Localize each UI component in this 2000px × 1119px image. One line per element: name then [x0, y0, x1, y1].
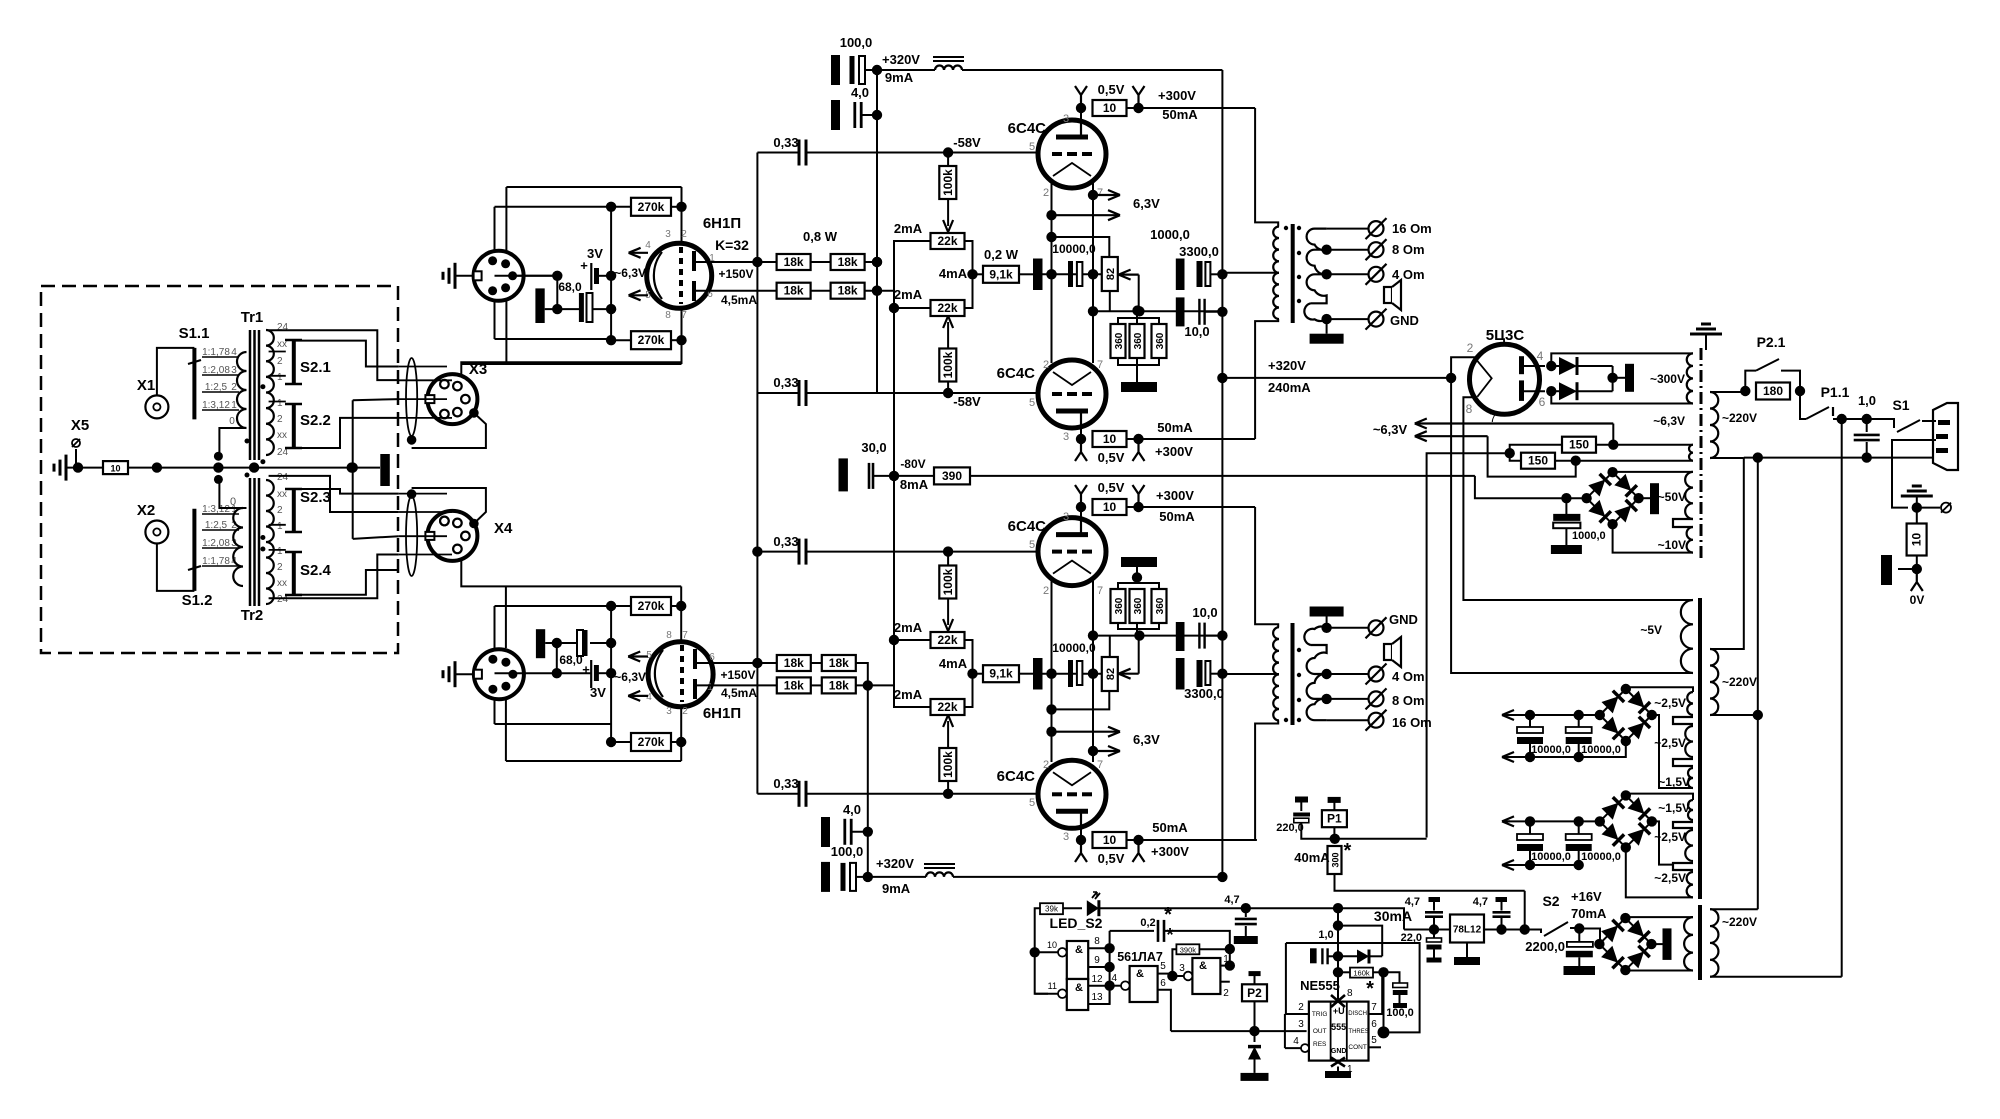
wire 40mA to S2 rail	[1524, 891, 1526, 930]
resistor 82 lower	[1102, 657, 1118, 691]
svg-text:9,1k: 9,1k	[989, 667, 1013, 681]
svg-text:10000,0: 10000,0	[1052, 242, 1096, 256]
winding ~220V B	[1710, 649, 1757, 715]
cable shield bar	[365, 454, 390, 486]
capacitor 22,0	[1401, 930, 1442, 963]
wire LED rail top	[1035, 907, 1246, 909]
svg-text:100k: 100k	[941, 169, 955, 196]
svg-text:8: 8	[665, 310, 671, 321]
svg-text:7: 7	[1371, 1002, 1377, 1013]
svg-text:4 Om: 4 Om	[1392, 267, 1425, 282]
svg-text:0,5V: 0,5V	[1098, 450, 1125, 465]
driver inner box upper	[495, 207, 612, 339]
tube 6N1P lower pin numbers	[646, 630, 715, 717]
output transformer lower secondary	[1304, 626, 1326, 720]
svg-text:4: 4	[645, 240, 651, 251]
wires into X3	[399, 367, 452, 418]
switch S1	[1867, 397, 1936, 432]
label 4,5mA upper	[721, 293, 757, 307]
capacitor 10,0 lower	[1176, 605, 1228, 651]
svg-text:0,8 W: 0,8 W	[803, 229, 838, 244]
svg-text:4mA: 4mA	[939, 656, 968, 671]
LED LED_S2	[1050, 892, 1103, 931]
wire grid upper tube2	[948, 392, 1038, 394]
wire primary bottom to +300V upper-2	[1255, 319, 1278, 439]
wire bridge B1 top	[1626, 687, 1693, 692]
svg-text:1,0: 1,0	[1318, 929, 1333, 941]
heater arrows lower	[614, 652, 648, 701]
black bar cathode lower	[536, 629, 545, 658]
svg-text:xx: xx	[277, 489, 287, 500]
svg-text:100,0: 100,0	[840, 35, 873, 50]
capacitor 0,33 lower-top	[757, 534, 948, 565]
tube 6C4C upper-2	[997, 360, 1106, 428]
svg-text:2: 2	[277, 356, 283, 367]
label 6,3V lower	[1133, 732, 1160, 747]
svg-text:50mA: 50mA	[1152, 820, 1188, 835]
svg-text:4 Om: 4 Om	[1392, 669, 1425, 684]
svg-text:22k: 22k	[937, 301, 957, 315]
wire 300V winding bottom	[1550, 403, 1552, 405]
wire 18k row1 mid lower	[811, 663, 873, 882]
resistor 22k upper-2	[931, 300, 965, 316]
svg-text:3300,0: 3300,0	[1184, 686, 1224, 701]
svg-text:300: 300	[1331, 852, 1341, 867]
svg-text:18k: 18k	[829, 678, 849, 692]
svg-text:3: 3	[1298, 1019, 1304, 1030]
winding ~220V A	[1710, 392, 1757, 458]
svg-text:100,0: 100,0	[1386, 1007, 1414, 1019]
switch S2	[1525, 893, 1580, 936]
bracket 22k left upper	[894, 241, 931, 308]
label 4mA lower	[939, 656, 968, 671]
capacitor 100,0 lower	[821, 844, 868, 892]
svg-text:0,33: 0,33	[773, 534, 798, 549]
wire pin3 upper-2	[1076, 411, 1086, 444]
winding ~220V C	[1710, 909, 1757, 977]
resistor 100k upper-top	[939, 153, 956, 200]
svg-text:7: 7	[1097, 759, 1103, 771]
arrow 100k to 22k lower-2	[943, 715, 953, 748]
svg-text:4,5mA: 4,5mA	[721, 686, 757, 700]
svg-text:10000,0: 10000,0	[1581, 744, 1621, 756]
bracket 22k right lower	[965, 640, 978, 707]
tube 6C4C lower-2	[997, 760, 1106, 828]
svg-text:6С4С: 6С4С	[1008, 518, 1047, 535]
svg-text:~6,3V: ~6,3V	[614, 266, 646, 280]
svg-text:xx: xx	[277, 430, 287, 441]
resistor 18k r1a upper	[777, 254, 811, 270]
wire primary A top	[1710, 391, 1745, 393]
svg-text:-58V: -58V	[953, 394, 981, 409]
cable shield ellipse upper	[406, 358, 417, 436]
svg-text:270k: 270k	[638, 735, 665, 749]
wire OUT	[1171, 1030, 1307, 1032]
wire bridge50 top	[1613, 471, 1693, 473]
capacitor 220,0	[1276, 800, 1335, 839]
node -58V lower-bottom	[943, 789, 953, 799]
svg-text:9mA: 9mA	[885, 70, 914, 85]
terminal chassis right	[1917, 503, 1951, 513]
svg-text:70mA: 70mA	[1571, 906, 1607, 921]
arrow feed B2 plus	[1502, 816, 1514, 826]
svg-text:+: +	[580, 258, 588, 273]
wire +320V 240mA to rectifier	[1222, 358, 1450, 395]
svg-text:160k: 160k	[1353, 969, 1370, 978]
resistor 18k r1b upper	[831, 254, 865, 270]
asterisk near P1	[0, 0, 1, 1]
svg-text:6,3V: 6,3V	[1133, 196, 1160, 211]
svg-text:39k: 39k	[1045, 905, 1059, 914]
svg-text:360: 360	[1114, 597, 1125, 614]
resistor 270k upper top	[631, 198, 671, 216]
resistor 270k lower bottom	[631, 733, 671, 751]
winding ~50V ~10V	[1658, 472, 1693, 553]
wire X4 bottom to driver box	[461, 561, 681, 586]
svg-text:*: *	[1166, 925, 1173, 945]
core A	[1700, 348, 1703, 558]
svg-text:360: 360	[1114, 332, 1125, 349]
svg-text:50mA: 50mA	[1162, 107, 1198, 122]
svg-text:4,0: 4,0	[851, 85, 869, 100]
rail 555 right	[1378, 972, 1390, 1038]
svg-text:P1: P1	[1327, 812, 1342, 826]
wire 180 to P1.1	[1800, 391, 1806, 419]
wire GND tap lower	[1321, 623, 1368, 633]
wire anode 6	[1522, 386, 1557, 396]
svg-text:~50V: ~50V	[1658, 490, 1686, 504]
wire cathode link upper	[556, 276, 558, 309]
svg-text:10: 10	[1103, 101, 1117, 115]
wire 8 Om tap	[1321, 245, 1368, 255]
resistor 10 lower-2	[1093, 832, 1127, 848]
svg-text:10,0: 10,0	[1184, 324, 1209, 339]
svg-text:50mA: 50mA	[1157, 420, 1193, 435]
gate 561LA7 A	[1035, 940, 1089, 979]
ground top of core A	[1690, 324, 1722, 350]
bus bias left upper	[889, 303, 899, 476]
555 pin 4 wire	[1285, 1036, 1309, 1052]
wire P1 to rail	[1335, 838, 1427, 840]
svg-text:GND: GND	[1331, 1048, 1347, 1055]
svg-text:3V: 3V	[587, 246, 603, 261]
tube 5Ц3С pin numbers	[1466, 341, 1546, 425]
svg-text:6Н1П: 6Н1П	[703, 215, 741, 232]
capacitor 4,0 upper	[831, 85, 882, 130]
label 2mA lower-1	[894, 620, 923, 635]
svg-text:DISCH: DISCH	[1348, 1011, 1367, 1017]
555 pin 7 wire	[1369, 972, 1383, 1014]
svg-text:10: 10	[1103, 833, 1117, 847]
svg-text:360: 360	[1155, 597, 1166, 614]
wire bridge C bottom	[1625, 969, 1693, 971]
svg-text:5: 5	[1029, 797, 1035, 809]
wire bus to 0,2cap	[1110, 930, 1154, 932]
svg-text:TRIG: TRIG	[1312, 1011, 1328, 1018]
wire 10 to +300V upper-2	[1127, 434, 1256, 444]
relay P1	[1322, 800, 1347, 839]
ground at input socket lower	[443, 661, 475, 687]
wire 270k bottom lower	[606, 737, 687, 747]
svg-text:S2.4: S2.4	[300, 562, 332, 579]
heater arrow 2 upper	[1052, 210, 1121, 220]
output transformer upper secondary	[1304, 229, 1326, 321]
svg-text:360: 360	[1133, 332, 1144, 349]
wiper arrow 82 lower	[1119, 636, 1139, 679]
svg-text:&: &	[1136, 968, 1144, 980]
svg-text:8: 8	[1466, 402, 1473, 416]
diode ctrl	[1338, 926, 1382, 964]
capacitor bridge50 plus bar	[1639, 483, 1659, 514]
svg-text:240mA: 240mA	[1268, 380, 1311, 395]
svg-text:~220V: ~220V	[1722, 411, 1757, 425]
arrow 100k to 22k upper-2	[943, 316, 953, 349]
wire pin8 5C3S	[1463, 397, 1693, 600]
node S2 out	[1574, 923, 1584, 933]
wire common ground column	[348, 399, 399, 539]
black bar cathode upper	[535, 276, 562, 323]
svg-text:RES: RES	[1313, 1041, 1327, 1048]
wire 82 bottom lower	[1109, 636, 1111, 657]
loop anodes to winding 300V	[1551, 353, 1693, 403]
wire tap24 Tr2 to X4	[269, 555, 399, 599]
svg-text:8 Om: 8 Om	[1392, 693, 1425, 708]
svg-text:THRES: THRES	[1348, 1029, 1368, 1035]
resistors 360 x3 upper	[1111, 305, 1167, 373]
wire 150 junction left	[1427, 453, 1510, 837]
svg-text:180: 180	[1763, 384, 1783, 398]
wire X3 shield	[412, 413, 486, 448]
switch S1.1 contact labels	[202, 347, 239, 411]
chassis ground right	[1901, 486, 1933, 513]
diode bridge C	[1594, 913, 1656, 975]
svg-text:18k: 18k	[784, 678, 804, 692]
svg-text:10000,0: 10000,0	[1531, 851, 1571, 863]
svg-text:24: 24	[277, 322, 289, 333]
svg-text:1000,0: 1000,0	[1150, 227, 1190, 242]
svg-text:0,2: 0,2	[1140, 917, 1155, 929]
svg-text:+300V: +300V	[1158, 88, 1196, 103]
svg-text:0,5V: 0,5V	[1098, 851, 1125, 866]
svg-text:270k: 270k	[638, 599, 665, 613]
svg-text:3: 3	[666, 706, 672, 717]
svg-text:12: 12	[1091, 974, 1103, 985]
svg-text:0,33: 0,33	[773, 375, 798, 390]
terminal 16 Om	[1366, 218, 1432, 239]
svg-text:2mA: 2mA	[894, 221, 923, 236]
svg-text:150: 150	[1528, 454, 1548, 468]
svg-text:22k: 22k	[937, 700, 957, 714]
gate 561LA7 C	[1110, 966, 1158, 1002]
wire bridge B1 right	[1652, 715, 1693, 788]
wire S2.2 to X3	[294, 418, 399, 448]
driver outer box lower	[461, 586, 681, 761]
cable shield ellipse lower	[406, 496, 417, 576]
transformer Tr2 core	[250, 478, 259, 606]
svg-text:8mA: 8mA	[900, 477, 929, 492]
wire plate2 to 18k row2 lower	[695, 684, 776, 686]
svg-text:4,7: 4,7	[1405, 896, 1420, 908]
antennas lower-1	[1075, 480, 1145, 502]
svg-text:16 Om: 16 Om	[1392, 221, 1432, 236]
wire GND tap upper	[1321, 314, 1368, 324]
svg-text:~6,3V: ~6,3V	[1653, 414, 1685, 428]
svg-text:~5V: ~5V	[1640, 623, 1662, 637]
wire 6,3V winding lower terminal	[1691, 460, 1693, 462]
resistor 22k upper-1	[931, 233, 965, 249]
resistor 22k lower-2	[931, 699, 965, 715]
svg-text:7: 7	[1097, 359, 1103, 371]
bus gate outputs	[1104, 931, 1114, 1004]
wire S2.1 to X3	[294, 341, 399, 367]
switch S2.1	[285, 340, 331, 384]
svg-text:NE555: NE555	[1300, 978, 1340, 993]
svg-text:360: 360	[1133, 597, 1144, 614]
svg-text:+300V: +300V	[1151, 844, 1189, 859]
svg-text:3: 3	[1063, 831, 1069, 843]
svg-text:10: 10	[1103, 500, 1117, 514]
svg-text:0,33: 0,33	[773, 776, 798, 791]
svg-text:4,0: 4,0	[843, 802, 861, 817]
tube socket (6N1P heater) upper	[474, 251, 524, 301]
resistor 39k	[1040, 903, 1082, 914]
capacitor 3300,0 upper	[1150, 227, 1227, 290]
wire heater2 route	[1488, 436, 1576, 476]
ground at X5	[54, 455, 103, 481]
svg-text:~2,5V: ~2,5V	[1654, 871, 1686, 885]
svg-text:+U: +U	[1333, 1006, 1345, 1016]
heater arrows upper	[614, 248, 648, 300]
node -80V	[889, 457, 929, 492]
svg-text:0: 0	[229, 416, 235, 427]
speaker icon upper	[1384, 280, 1401, 310]
svg-text:2: 2	[277, 562, 283, 573]
bus filter column upper	[872, 70, 882, 393]
svg-text:X2: X2	[137, 502, 155, 519]
svg-text:+: +	[582, 662, 590, 677]
wire control feed	[1241, 903, 1404, 930]
terminal GND lower	[1366, 612, 1418, 638]
svg-text:18k: 18k	[829, 656, 849, 670]
transformer Tr1 secondary winding	[266, 330, 274, 455]
wire +300V bus lower	[1255, 507, 1278, 627]
resistor 82 upper	[1102, 257, 1118, 291]
svg-text:10: 10	[1910, 533, 1924, 547]
svg-text:100k: 100k	[941, 751, 955, 778]
wire primary B top	[1710, 458, 1744, 649]
wiper arrow 82 upper	[1119, 270, 1139, 312]
svg-text:4,5mA: 4,5mA	[721, 293, 757, 307]
svg-text:10: 10	[110, 464, 120, 474]
capacitor 0,33 lower-bottom	[757, 776, 948, 807]
winding secondary C	[1684, 917, 1693, 970]
svg-text:S2.3: S2.3	[300, 489, 331, 506]
svg-text:+300V: +300V	[1155, 444, 1193, 459]
resistor 18k r1a lower	[777, 655, 811, 671]
resistor 100k upper-bottom	[939, 349, 956, 394]
driver inner box lower	[495, 606, 612, 724]
resistor 9,1k lower	[973, 665, 1020, 682]
switch P2.1	[1745, 334, 1800, 391]
wire bridge B2 right	[1652, 821, 1673, 864]
svg-text:5: 5	[1029, 141, 1035, 153]
svg-text:6С4С: 6С4С	[1008, 120, 1047, 137]
wire bridge B2 bottom	[1626, 847, 1693, 897]
antennas upper-2	[1075, 444, 1145, 465]
wire plate2 to 18k row2 upper	[694, 290, 777, 292]
svg-text:6: 6	[709, 652, 715, 663]
heater arrows ~6,3V	[1373, 419, 1613, 442]
wire B2 bottom link	[1579, 864, 1626, 866]
svg-text:4: 4	[1293, 1036, 1299, 1047]
wire extra nest 2	[269, 352, 286, 550]
svg-text:40mA: 40mA	[1294, 850, 1330, 865]
555 pin 5 wire	[1369, 1035, 1382, 1047]
svg-text:1: 1	[277, 372, 283, 383]
wire cathode row upper	[495, 275, 612, 277]
capacitor 10000,0 B1b	[1566, 715, 1621, 757]
wire grid column upper	[606, 207, 616, 340]
svg-text:+16V: +16V	[1571, 889, 1602, 904]
tube 6N1P upper pin numbers	[645, 229, 715, 321]
resistor 300 (40mA)	[1294, 840, 1524, 891]
label 0,8 W upper	[803, 229, 838, 244]
switch S1.1	[179, 325, 210, 419]
node heater top	[1596, 424, 1693, 450]
capacitor 0,2	[1140, 904, 1229, 949]
ground at input socket upper	[443, 263, 475, 289]
svg-text:50mA: 50mA	[1159, 509, 1195, 524]
tube 5Ц3С	[1470, 327, 1540, 414]
speaker icon lower	[1384, 637, 1401, 667]
terminal GND upper	[1366, 309, 1419, 330]
wire socket to cathode node upper	[513, 275, 557, 277]
resistor 10 (input)	[103, 461, 128, 474]
test point 0V	[1910, 574, 1925, 607]
wire 10 to +300V lower-1	[1127, 502, 1256, 512]
tube 6N1P upper	[647, 215, 741, 308]
svg-text:LED_S2: LED_S2	[1050, 915, 1103, 931]
capacitor 4,7 left	[1405, 896, 1443, 930]
cap bar bridge C right	[1651, 928, 1671, 960]
wire primary C bottom	[1710, 976, 1842, 978]
node input bus dots	[152, 462, 357, 472]
555 pin 1	[1325, 1058, 1353, 1079]
wire X4 shield	[412, 488, 486, 524]
svg-text:82: 82	[1105, 668, 1117, 680]
heater arrow 2 lower	[1093, 746, 1120, 756]
svg-text:S2.2: S2.2	[300, 412, 331, 429]
svg-text:3: 3	[665, 229, 671, 240]
wire primary C top	[1710, 908, 1758, 910]
output transformer lower primary	[1273, 627, 1279, 720]
node +320V rail lower	[1217, 872, 1227, 882]
node +320V at 5C3S	[1446, 373, 1456, 383]
wire S2.3 to X4	[294, 489, 399, 494]
node 180 right	[1795, 386, 1805, 396]
svg-text:6С4С: 6С4С	[997, 365, 1036, 382]
wire grid upper tube1	[948, 152, 1038, 154]
winding ~6,3V rect	[1653, 414, 1693, 461]
node 150 junction	[1505, 448, 1515, 458]
coupling bar upper	[1019, 259, 1043, 291]
wire LED left down	[1030, 908, 1049, 994]
svg-text:~6,3V: ~6,3V	[614, 670, 646, 684]
connector X5 label and pin	[71, 417, 89, 468]
svg-text:0,2 W: 0,2 W	[984, 247, 1019, 262]
svg-text:Tr1: Tr1	[241, 309, 264, 326]
svg-text:9mA: 9mA	[882, 881, 911, 896]
